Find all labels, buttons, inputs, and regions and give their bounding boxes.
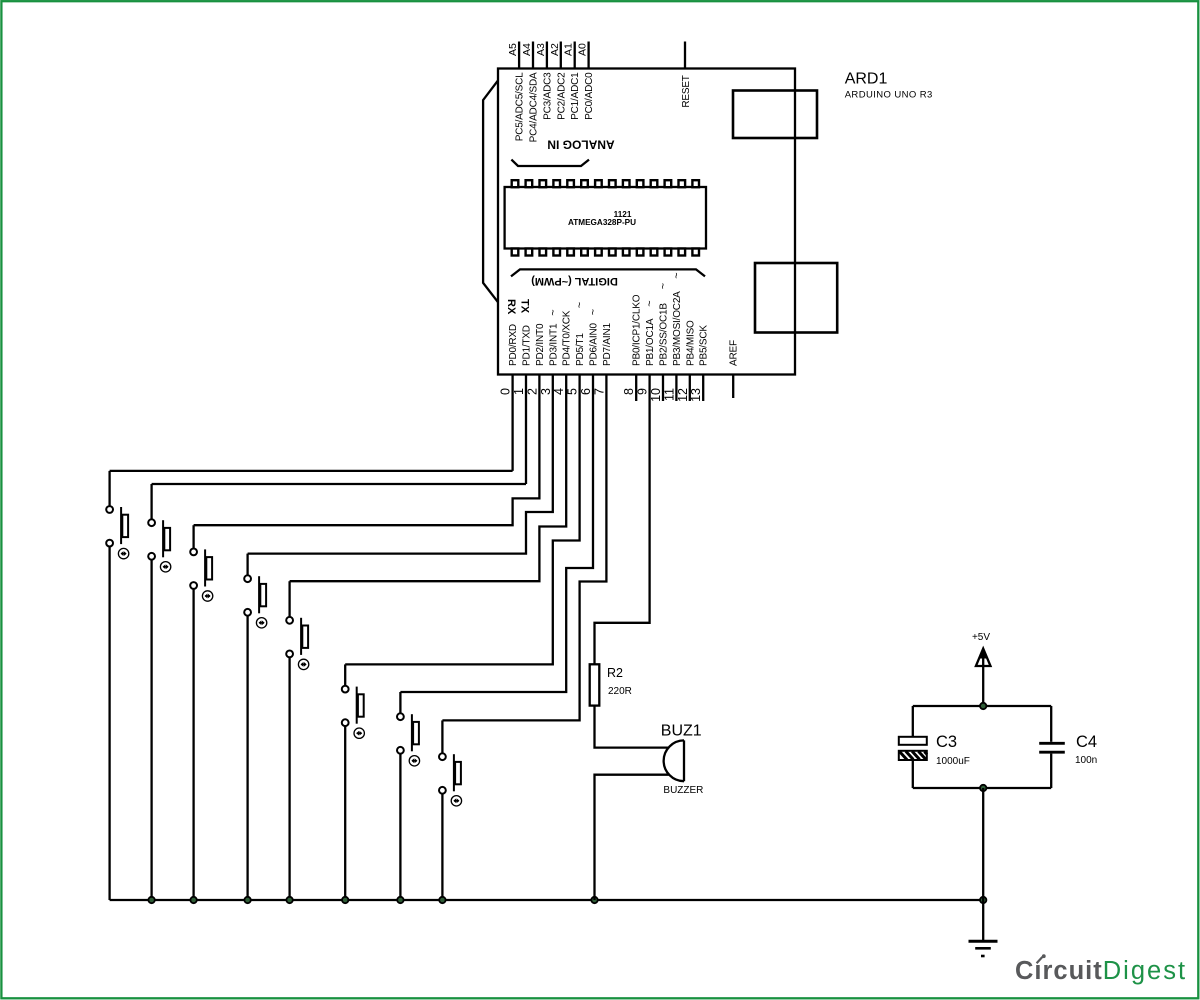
wire pin1 to S2 horizontal [152, 483, 526, 485]
capacitor C4 [1039, 743, 1065, 752]
svg-text:+5V: +5V [972, 632, 990, 643]
svg-text:PD6/AIN0: PD6/AIN0 [589, 322, 600, 366]
junction on ground bus x=289.6 [286, 897, 292, 903]
wire C4 bottom to rail [1050, 754, 1052, 788]
Arduino PCB edge notch [483, 80, 498, 302]
wire pin0 vertical [511, 375, 513, 471]
svg-text:7: 7 [592, 388, 606, 395]
wire pin7 to S8 [442, 375, 606, 721]
svg-text:DIGITAL (~PWM): DIGITAL (~PWM) [531, 275, 618, 287]
pin stub x=676.4 [675, 375, 677, 402]
ground bus wire [110, 899, 984, 901]
svg-text:~: ~ [547, 309, 559, 315]
IC ATMEGA328P-PU body [505, 180, 706, 255]
svg-text:BUZ1: BUZ1 [661, 722, 702, 739]
pushbutton S5 [286, 581, 309, 900]
+5V supply arrow [976, 649, 991, 666]
svg-text:PC0/ADC0: PC0/ADC0 [584, 72, 595, 120]
junction on ground bus x=247.6 [244, 897, 250, 903]
wire top rail [913, 705, 1051, 707]
wire bottom rail to ground bus [982, 788, 984, 900]
junction on ground bus x=345.2 [342, 897, 348, 903]
svg-text:PD0/RXD: PD0/RXD [508, 324, 519, 366]
svg-text:220R: 220R [608, 686, 632, 697]
svg-text:100n: 100n [1075, 755, 1097, 766]
svg-text:A2: A2 [549, 43, 561, 56]
pushbutton S8 [439, 720, 462, 900]
svg-text:PB0/ICP1/CLKO: PB0/ICP1/CLKO [632, 294, 643, 366]
junction on ground bus x=151.6 [148, 897, 154, 903]
wire bottom rail [913, 787, 1051, 789]
svg-text:ARD1: ARD1 [845, 71, 888, 88]
svg-text:2: 2 [525, 388, 539, 395]
svg-text:R2: R2 [607, 666, 623, 680]
bracket over DIGITAL (~PWM) [511, 269, 705, 276]
svg-text:10: 10 [649, 388, 663, 402]
svg-text:PC1/ADC1: PC1/ADC1 [570, 72, 581, 120]
svg-text:PD2/INT0: PD2/INT0 [535, 323, 546, 366]
pin A2 stub [560, 42, 562, 69]
svg-text:PD3/INT1: PD3/INT1 [548, 323, 559, 366]
svg-text:C3: C3 [936, 733, 957, 751]
pin RESET stub [684, 42, 686, 69]
wire pin4 to S5 [290, 375, 567, 582]
svg-text:~: ~ [644, 300, 656, 306]
svg-text:CırcuitDigest: CırcuitDigest [1015, 957, 1187, 985]
ground symbol [969, 941, 998, 956]
svg-text:~: ~ [574, 302, 586, 308]
svg-text:RX: RX [505, 299, 517, 315]
wire pin1 vertical [525, 375, 527, 485]
pin stub x=636.2 [635, 375, 637, 402]
pushbutton S4 [244, 554, 267, 900]
pin A3 stub [546, 42, 548, 69]
svg-text:4: 4 [552, 388, 566, 395]
svg-text:1: 1 [512, 388, 526, 395]
wire BUZ1 pin2 to ground bus [595, 775, 669, 900]
svg-text:PC4/ADC4/SDA: PC4/ADC4/SDA [529, 72, 540, 142]
junction on ground bus x=400.4 [397, 897, 403, 903]
svg-text:TX: TX [519, 299, 531, 314]
bracket under ANALOG IN [511, 160, 589, 166]
wire rail to C3 top [912, 706, 914, 737]
pin A5 stub [518, 42, 520, 69]
svg-text:~: ~ [658, 283, 670, 289]
svg-text:PB4/MISO: PB4/MISO [685, 320, 696, 366]
svg-text:RESET: RESET [681, 75, 692, 107]
buzzer BUZ1 symbol [664, 740, 684, 781]
wire C3 bottom to rail [912, 760, 914, 788]
svg-text:ANALOG IN: ANALOG IN [547, 138, 614, 152]
svg-text:PB2/SS/OC1B: PB2/SS/OC1B [659, 303, 670, 366]
svg-text:A3: A3 [535, 43, 547, 56]
svg-text:BUZZER: BUZZER [663, 785, 703, 796]
capacitor C3 (polarized) [899, 737, 927, 760]
wire rail to C4 top [1050, 706, 1052, 742]
junction on ground bus x=193.6 [190, 897, 196, 903]
pin AREF stub [732, 375, 734, 399]
svg-text:PD5/T1: PD5/T1 [575, 333, 586, 366]
svg-text:~: ~ [588, 309, 600, 315]
pin A1 stub [574, 42, 576, 69]
svg-text:0: 0 [499, 388, 513, 395]
pushbutton S1 [106, 471, 129, 900]
svg-text:A1: A1 [563, 43, 575, 56]
svg-text:PB5/SCK: PB5/SCK [699, 325, 710, 366]
svg-text:PB1/OC1A: PB1/OC1A [645, 318, 656, 366]
svg-text:PB3/MOSI/OC2A: PB3/MOSI/OC2A [672, 291, 683, 366]
resistor R2 body [590, 664, 600, 705]
power connector block [755, 263, 837, 333]
svg-text:A0: A0 [577, 43, 589, 56]
svg-text:6: 6 [579, 388, 593, 395]
svg-text:8: 8 [622, 388, 636, 395]
wire pin3 to S4 [248, 375, 553, 554]
pushbutton S7 [397, 692, 420, 900]
wire R2 to BUZ1 pin1 [595, 706, 669, 748]
pin stub x=689.8 [689, 375, 691, 402]
svg-text:9: 9 [636, 388, 650, 395]
wire pin9 to R2 [595, 375, 650, 665]
CircuitDigest logo [1015, 954, 1187, 985]
svg-text:5: 5 [566, 388, 580, 395]
svg-text:11: 11 [662, 388, 676, 401]
junction buzzer ground [591, 897, 597, 903]
wire pin0 to S1 horizontal [110, 470, 513, 472]
svg-text:AREF: AREF [729, 340, 740, 366]
svg-text:13: 13 [689, 388, 703, 402]
svg-text:ARDUINO UNO R3: ARDUINO UNO R3 [845, 90, 933, 101]
junction ground bus right [980, 897, 986, 903]
pushbutton S6 [342, 664, 365, 900]
Arduino board ARD1 outline [498, 69, 795, 375]
svg-text:~: ~ [671, 272, 683, 278]
wire to ground symbol [982, 900, 984, 941]
svg-text:1000uF: 1000uF [936, 756, 970, 767]
junction top rail [980, 703, 986, 709]
USB connector block [733, 91, 817, 139]
wire pin2 to S3 [194, 375, 540, 526]
pin A4 stub [532, 42, 534, 69]
junction bottom rail [980, 785, 986, 791]
pushbutton S2 [148, 484, 171, 900]
pin A0 stub [587, 42, 589, 69]
svg-text:ATMEGA328P-PU: ATMEGA328P-PU [568, 218, 636, 227]
pushbutton S3 [190, 525, 213, 900]
svg-text:A5: A5 [507, 43, 519, 56]
svg-text:PD4/T0/XCK: PD4/T0/XCK [562, 310, 573, 366]
svg-text:A4: A4 [521, 43, 533, 56]
svg-text:PD1/TXD: PD1/TXD [522, 325, 533, 366]
svg-text:C4: C4 [1076, 733, 1097, 751]
svg-text:PD7/AIN1: PD7/AIN1 [602, 322, 613, 366]
svg-text:PC3/ADC3: PC3/ADC3 [542, 72, 553, 120]
svg-text:12: 12 [676, 388, 690, 402]
pin stub x=703.2 [702, 375, 704, 402]
svg-text:PC5/ADC5/SCL: PC5/ADC5/SCL [515, 72, 526, 141]
svg-text:PC2/ADC2: PC2/ADC2 [556, 72, 567, 120]
wire pin5 to S6 [345, 375, 579, 665]
wire pin6 to S7 [400, 375, 593, 693]
junction on ground bus x=442.4 [439, 897, 445, 903]
wire +5V to rail [982, 652, 984, 706]
svg-text:3: 3 [539, 388, 553, 395]
pin stub x=663.0 [662, 375, 664, 402]
